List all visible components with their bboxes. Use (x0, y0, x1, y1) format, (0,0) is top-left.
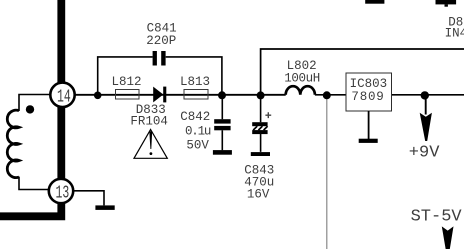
capacitor C842 plates (214, 119, 230, 123)
top edge bar 1 (cut-off component) (365, 0, 384, 4)
svg-text:13: 13 (56, 182, 70, 204)
node: junction dot at C841/C842 (218, 91, 226, 99)
capacitor C841 plates (153, 51, 157, 66)
wire: C843 branch (260, 95, 262, 151)
pin 13 label (56, 182, 70, 204)
node: junction dot C843 (257, 91, 265, 99)
ST-5V arrow (442, 226, 454, 249)
svg-text:0.1u: 0.1u (185, 124, 211, 138)
node: junction dot L802 out (323, 91, 331, 99)
svg-text:IN40: IN40 (445, 27, 464, 41)
regulator IC803 box (346, 73, 391, 111)
wire: top rail down to main rail at C843 node (261, 49, 464, 95)
capacitor C843 plates with polarity hatch (252, 122, 267, 126)
svg-text:L813: L813 (180, 75, 210, 89)
plus sign C843 (265, 112, 271, 118)
C842 bottom rail bar (213, 150, 232, 155)
+9V arrow (425, 99, 427, 115)
wire: C842 branch (221, 95, 223, 150)
wire: IC803 output to right edge (391, 94, 464, 96)
svg-text:7809: 7809 (351, 90, 384, 104)
pin 14 label (57, 86, 71, 108)
wire: main rail pin14 to L802 (76, 94, 286, 96)
pin 13 circle (49, 179, 73, 203)
pin 14 circle (50, 83, 74, 107)
polarity dot (26, 105, 34, 113)
node: junction dot left of L812 (94, 92, 102, 100)
wire: pin 13 right to ground (73, 191, 104, 206)
wire: thick shield bus bar left, vertical with bottom-left horizontal arm (0, 0, 61, 216)
wire: IC803 ground pin (368, 111, 370, 140)
inductor T-winding coil (4 arcs) (7, 110, 19, 177)
inductor L802 (286, 86, 315, 95)
node: junction dot +9V (421, 91, 429, 99)
warning triangle with exclamation (134, 130, 167, 159)
wire: winding connection pin14 left, down to coil top (19, 95, 50, 112)
wire: L802 to IC803 (315, 94, 346, 96)
svg-text:14: 14 (57, 86, 71, 108)
svg-text:100uH: 100uH (284, 71, 320, 85)
inductor L813 body (184, 90, 208, 100)
svg-text:16V: 16V (247, 188, 270, 202)
svg-text:L812: L812 (112, 75, 142, 89)
gray sense line down from L802 node (326, 95, 328, 249)
inductor L812 body (116, 90, 140, 100)
ground bar right of pin 13 (95, 205, 114, 210)
C843 bottom rail bar (251, 152, 270, 156)
wire: C841 bypass loop (98, 57, 222, 95)
svg-text:FR104: FR104 (130, 115, 168, 129)
diode D833 (153, 87, 163, 103)
svg-text:50V: 50V (186, 139, 209, 153)
svg-text:C842: C842 (180, 110, 210, 124)
svg-text:220P: 220P (146, 34, 176, 48)
svg-text:+9V: +9V (409, 143, 440, 162)
top edge bar 2 (cut-off component) (436, 0, 457, 4)
wire: coil bottom to pin 13 (19, 177, 49, 190)
svg-text:ST-5V: ST-5V (411, 208, 463, 227)
svg-text:IC803: IC803 (350, 77, 388, 91)
ground bar IC803 (359, 139, 378, 143)
